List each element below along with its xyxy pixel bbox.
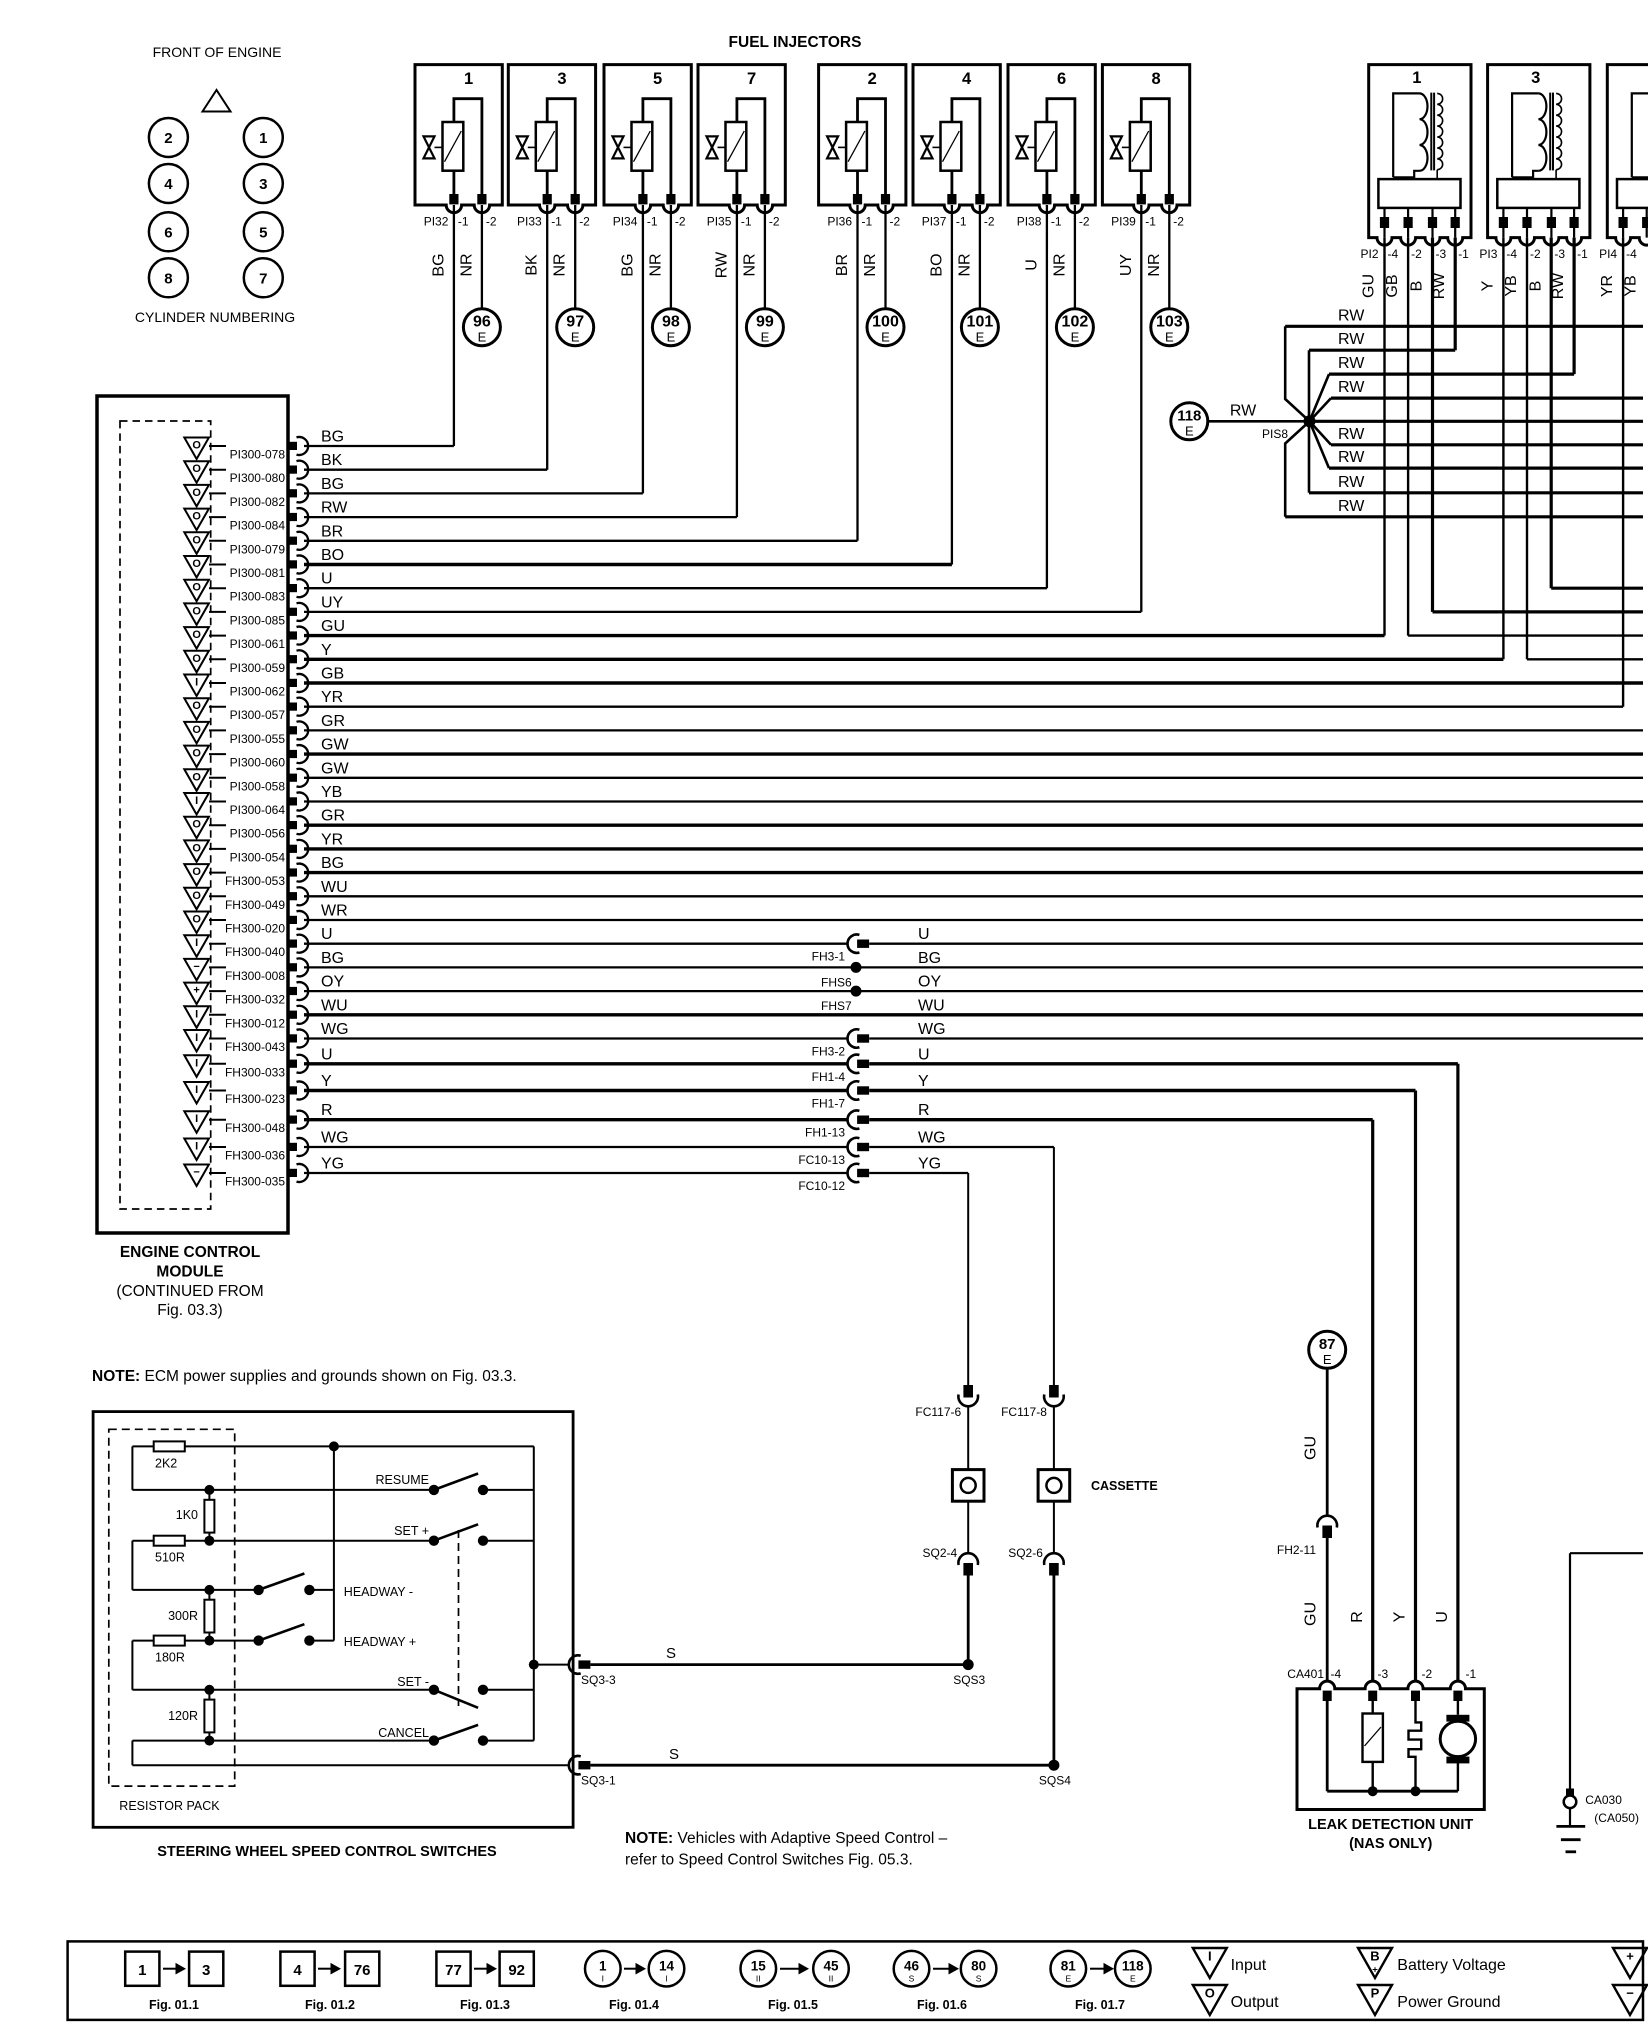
wire NR from PI36-2 to ground 100: [862, 205, 886, 309]
ECM pin FH300-036 (input WG): [184, 1138, 308, 1163]
fuel injector 2 (PI36): [819, 65, 906, 213]
svg-text:FC10-12: FC10-12: [798, 1179, 845, 1193]
svg-text:-4: -4: [1626, 247, 1637, 261]
ECM pin FH300-043 (input WG): [184, 1030, 308, 1055]
svg-text:BO: BO: [321, 547, 344, 564]
svg-text:RW: RW: [713, 251, 730, 278]
ground 97E: [557, 309, 594, 346]
svg-text:Fig. 01.4: Fig. 01.4: [609, 1998, 659, 2012]
wire BK from ECM PI300-080: [304, 452, 547, 470]
svg-text:BG: BG: [321, 429, 344, 446]
svg-text:GU: GU: [1303, 1602, 1320, 1626]
svg-text:BO: BO: [928, 253, 945, 276]
wire RW from ground 118 to splice PIS8: [1208, 403, 1310, 422]
svg-text:PI32: PI32: [424, 215, 449, 229]
ground 103E: [1151, 309, 1188, 346]
svg-text:STEERING WHEEL SPEED CONTROL S: STEERING WHEEL SPEED CONTROL SWITCHES: [157, 1844, 497, 1860]
svg-text:-1: -1: [1145, 215, 1156, 229]
resistor 1K0: [176, 1490, 215, 1541]
wire BG from ECM PI300-082: [304, 476, 643, 494]
svg-text:I: I: [195, 795, 198, 807]
svg-text:FH1-13: FH1-13: [805, 1126, 845, 1140]
wire to SQ3-3: [534, 1664, 570, 1666]
wire UY from PI39-1 to ECM: [1118, 205, 1142, 612]
wire left bus 2K2-1K0: [131, 1446, 133, 1490]
in-line connector SQ2-6: [1008, 1546, 1063, 1576]
ground 87E: [1309, 1331, 1346, 1368]
svg-text:-2: -2: [1422, 1667, 1433, 1681]
cylinder 4 circle: [149, 164, 188, 203]
ECM pin PI300-055 (output GR): [184, 721, 308, 746]
wire WU from ECM FH300-012 to right edge: [304, 997, 1643, 1015]
ECM pin PI300-083 (output U): [184, 579, 308, 604]
svg-text:PI300-078: PI300-078: [230, 448, 286, 462]
label LEAK DETECTION UNIT: [1308, 1817, 1473, 1852]
svg-text:45: 45: [823, 1959, 839, 1974]
svg-text:FH3-1: FH3-1: [812, 950, 846, 964]
svg-text:YR: YR: [321, 831, 343, 848]
svg-text:PIS8: PIS8: [1262, 427, 1288, 441]
svg-text:Y: Y: [1392, 1611, 1409, 1622]
wire BK from PI33-1 to ECM: [524, 205, 548, 470]
in-line connector FC10-13: [798, 1138, 869, 1167]
svg-text:118: 118: [1177, 408, 1201, 425]
svg-text:Output: Output: [1231, 1994, 1280, 2011]
svg-text:FH3-2: FH3-2: [812, 1045, 846, 1059]
svg-text:WU: WU: [321, 997, 348, 1014]
svg-text:Y: Y: [321, 642, 332, 659]
svg-text:FH300-035: FH300-035: [225, 1175, 285, 1189]
svg-text:E: E: [976, 330, 985, 345]
svg-text:FH300-012: FH300-012: [225, 1016, 285, 1030]
svg-text:-1: -1: [956, 215, 967, 229]
connector SQ3-3: [569, 1655, 616, 1687]
svg-text:15: 15: [751, 1959, 767, 1974]
svg-text:-2: -2: [984, 215, 995, 229]
svg-text:I: I: [195, 677, 198, 689]
switch HEADWAY+: [253, 1624, 333, 1646]
svg-text:I: I: [195, 1113, 198, 1125]
cylinder 1 circle: [244, 118, 283, 157]
wire WG from connector FH3-2: [869, 1021, 1643, 1039]
svg-text:(CONTINUED FROM: (CONTINUED FROM: [116, 1283, 263, 1300]
svg-text:O: O: [192, 534, 201, 546]
wire B rail from PI3-3 to right edge: [1551, 587, 1643, 590]
svg-text:UY: UY: [1118, 254, 1135, 277]
svg-text:101: 101: [967, 314, 994, 331]
wire CANCEL return to SQ3-1: [132, 1764, 570, 1766]
legend Fig. 01.7: [1051, 1951, 1151, 2012]
svg-text:SQ2-6: SQ2-6: [1008, 1546, 1043, 1560]
svg-text:Y: Y: [321, 1073, 332, 1090]
svg-text:87: 87: [1319, 1336, 1336, 1353]
wire left bus 120R-SQ3-1: [131, 1741, 133, 1766]
svg-text:YG: YG: [321, 1156, 344, 1173]
wire GW from ECM PI300-060 to right edge: [304, 737, 1643, 755]
svg-text:PI300-064: PI300-064: [230, 803, 286, 817]
label HEADWAY-: [344, 1585, 413, 1599]
svg-text:96: 96: [473, 314, 491, 331]
svg-text:O: O: [1205, 1986, 1215, 2001]
wire centre bus: [333, 1446, 335, 1640]
switch RESUME: [429, 1474, 534, 1496]
wire BG from PI34-1 to ECM: [619, 205, 643, 493]
legend Fig. 01.6: [894, 1951, 997, 2012]
svg-text:FRONT OF ENGINE: FRONT OF ENGINE: [153, 44, 282, 60]
svg-text:FH300-048: FH300-048: [225, 1121, 285, 1135]
svg-text:O: O: [192, 440, 201, 452]
wire B from PI2-3 down: [1431, 238, 1434, 612]
wire resistor-pack row with splice: [132, 1441, 533, 1451]
connector label PI34 -1 -2: [613, 215, 686, 229]
svg-text:O: O: [192, 842, 201, 854]
wire RW from PI2-1 to splice rail: [1454, 238, 1457, 351]
in-line connector FC10-12: [798, 1164, 869, 1193]
svg-text:3: 3: [259, 176, 267, 193]
svg-text:FC117-6: FC117-6: [915, 1405, 961, 1419]
svg-text:PI33: PI33: [517, 215, 542, 229]
ECM pin PI300-057 (output YR): [184, 698, 308, 723]
svg-text:E: E: [881, 330, 890, 345]
svg-text:FH1-7: FH1-7: [812, 1097, 846, 1111]
svg-text:FH300-043: FH300-043: [225, 1040, 285, 1054]
svg-text:120R: 120R: [168, 1709, 198, 1723]
wire RW rail 4: [1331, 379, 1643, 398]
svg-text:II: II: [829, 1974, 834, 1984]
svg-text:S: S: [909, 1974, 915, 1984]
svg-text:NOTE: Vehicles with Adaptive S: NOTE: Vehicles with Adaptive Speed Contr…: [625, 1830, 948, 1847]
wire U from connector FH1-4: [869, 1046, 1458, 1064]
svg-text:YR: YR: [321, 689, 343, 706]
fuel injector 4 (PI37): [913, 65, 1000, 213]
wire left bus 510R-300R: [131, 1541, 133, 1590]
svg-text:Fig. 01.5: Fig. 01.5: [768, 1998, 818, 2012]
wire GR from ECM PI300-055 to right edge: [304, 713, 1643, 731]
svg-text:PI2: PI2: [1360, 247, 1378, 261]
splice PIS8: [1285, 326, 1331, 517]
svg-text:E: E: [571, 330, 580, 345]
svg-text:RESISTOR PACK: RESISTOR PACK: [119, 1799, 220, 1813]
steering wheel switches box: [93, 1412, 573, 1828]
wire RW rail 3: [1329, 355, 1574, 374]
svg-text:I: I: [665, 1974, 667, 1984]
svg-text:Fig. 01.6: Fig. 01.6: [917, 1998, 967, 2012]
svg-text:Power Ground: Power Ground: [1397, 1994, 1500, 2011]
svg-text:GB: GB: [1384, 274, 1401, 297]
svg-text:-2: -2: [675, 215, 686, 229]
svg-text:BG: BG: [321, 855, 344, 872]
svg-text:PI300-080: PI300-080: [230, 471, 286, 485]
wire GB from PI2-2 down: [1407, 238, 1409, 636]
fuel injector 7 (PI35): [698, 65, 785, 213]
wire B rail from PI2-3 to right edge: [1433, 610, 1644, 613]
svg-text:O: O: [192, 724, 201, 736]
connector label PI33 -1 -2: [517, 215, 590, 229]
svg-text:80: 80: [971, 1959, 986, 1974]
resistor 2K2: [154, 1441, 185, 1470]
label HEADWAY+: [344, 1635, 416, 1649]
ignition coil 5 (PI4): [1607, 65, 1648, 246]
wire YG from connector FC10-12: [869, 1156, 968, 1174]
wire B from PI3-3 down: [1550, 238, 1553, 589]
wire YB from PI3-2 down: [1526, 238, 1528, 660]
svg-text:FC117-8: FC117-8: [1001, 1405, 1047, 1419]
svg-text:6: 6: [1057, 70, 1066, 88]
legend Fig. 01.2: [280, 1952, 379, 2012]
svg-text:-4: -4: [1506, 247, 1517, 261]
ECM pin PI300-080 (output BK): [184, 461, 308, 486]
wire GR from ECM PI300-056 to right edge: [304, 808, 1643, 826]
label CASSETTE: [1091, 1479, 1158, 1493]
svg-text:3: 3: [202, 1962, 210, 1979]
svg-text:PI4: PI4: [1599, 247, 1617, 261]
cassette switch contact at FC117-6: [952, 1470, 984, 1502]
svg-text:2: 2: [868, 70, 877, 88]
svg-text:YR: YR: [1599, 275, 1616, 297]
svg-text:103: 103: [1156, 314, 1183, 331]
svg-text:98: 98: [662, 314, 680, 331]
front-of-engine triangle symbol: [203, 90, 231, 112]
svg-text:R: R: [1349, 1611, 1366, 1623]
leak unit heater resistor: [1363, 1701, 1383, 1796]
svg-text:-1: -1: [1466, 1667, 1477, 1681]
leak detection unit box: [1297, 1681, 1484, 1809]
svg-text:BG: BG: [619, 253, 636, 276]
svg-text:GW: GW: [321, 737, 349, 754]
title FUEL INJECTORS: [729, 34, 862, 51]
svg-text:E: E: [1071, 330, 1080, 345]
ECM pin PI300-084 (output RW): [184, 508, 308, 532]
svg-text:RW: RW: [1338, 498, 1365, 515]
svg-text:CYLINDER NUMBERING: CYLINDER NUMBERING: [135, 309, 295, 325]
svg-text:SQ2-4: SQ2-4: [923, 1546, 958, 1560]
svg-text:NR: NR: [1051, 253, 1068, 276]
svg-text:-1: -1: [862, 215, 873, 229]
svg-text:I: I: [1208, 1949, 1212, 1964]
svg-text:14: 14: [659, 1959, 675, 1974]
wire SET- row: [132, 1685, 434, 1695]
wire cassette to SQ2-4: [967, 1501, 969, 1552]
cylinder 7 circle: [244, 258, 283, 297]
wire BG from ECM FH300-008 with splice FHS6: [304, 950, 1643, 990]
svg-text:RW: RW: [1338, 379, 1365, 396]
svg-text:81: 81: [1061, 1959, 1077, 1974]
svg-text:YB: YB: [321, 784, 342, 801]
svg-text:PI37: PI37: [922, 215, 947, 229]
svg-text:PI3: PI3: [1479, 247, 1497, 261]
svg-text:BK: BK: [321, 452, 343, 469]
svg-text:FH300-040: FH300-040: [225, 945, 285, 959]
wire RW rail 1: [1285, 307, 1643, 326]
wire GB from ECM PI300-062: [304, 666, 1643, 684]
coil 1 wire colour labels: [1361, 272, 1449, 299]
connector label PI3 pins: [1479, 247, 1588, 261]
ECM pin PI300-062 (input GB): [184, 674, 308, 699]
svg-text:O: O: [192, 890, 201, 902]
svg-text:(NAS ONLY): (NAS ONLY): [1349, 1836, 1432, 1852]
svg-text:1: 1: [138, 1962, 146, 1979]
svg-text:O: O: [192, 866, 201, 878]
svg-text:102: 102: [1062, 314, 1089, 331]
svg-text:FH300-008: FH300-008: [225, 969, 285, 983]
svg-text:8: 8: [164, 270, 172, 287]
svg-text:4: 4: [164, 176, 173, 193]
svg-text:O: O: [192, 653, 201, 665]
svg-text:FH300-032: FH300-032: [225, 993, 285, 1007]
wire BG from PI32-1 to ECM: [430, 205, 454, 446]
wire CANCEL row: [132, 1736, 434, 1746]
svg-text:2: 2: [164, 130, 172, 147]
ECM pin FH300-012 (input WU): [184, 1006, 308, 1031]
wire WR from ECM FH300-020 to right edge: [304, 903, 1643, 921]
wire FC117-6 to cassette: [967, 1407, 969, 1470]
svg-text:Fig. 01.7: Fig. 01.7: [1075, 1998, 1125, 2012]
svg-text:E: E: [1065, 1974, 1071, 1984]
wire RW rail from splice to right edge: [1310, 420, 1644, 423]
svg-text:O: O: [192, 463, 201, 475]
wire U from connector FH3-1: [869, 926, 1643, 944]
svg-text:CA401: CA401: [1287, 1667, 1324, 1681]
svg-text:O: O: [192, 914, 201, 926]
ground 100E: [867, 309, 904, 346]
svg-text:BG: BG: [321, 950, 344, 967]
cylinder 6 circle: [149, 212, 188, 251]
svg-text:BG: BG: [430, 253, 447, 276]
svg-text:Y: Y: [918, 1073, 929, 1090]
label RESISTOR PACK: [119, 1799, 220, 1813]
wire YB from ECM PI300-064 to right edge: [304, 784, 1643, 802]
in-line connector SQ2-4: [923, 1546, 978, 1576]
svg-text:SQS4: SQS4: [1039, 1774, 1071, 1788]
svg-text:4: 4: [293, 1962, 302, 1979]
svg-text:5: 5: [259, 224, 267, 241]
svg-text:O: O: [192, 771, 201, 783]
svg-text:SQ3-1: SQ3-1: [581, 1774, 616, 1788]
svg-text:NR: NR: [741, 253, 758, 276]
connector label PI32 -1 -2: [424, 215, 497, 229]
svg-text:SET -: SET -: [397, 1675, 429, 1689]
fuel injector 3 (PI33): [508, 65, 595, 213]
svg-text:PI300-056: PI300-056: [230, 827, 286, 841]
svg-text:B: B: [1409, 281, 1426, 292]
ground 98E: [652, 309, 689, 346]
wire NR from PI33-2 to ground 97: [552, 205, 576, 309]
svg-text:PI300-054: PI300-054: [230, 850, 286, 864]
ground 101E: [961, 309, 998, 346]
svg-text:OY: OY: [321, 974, 344, 991]
wire cassette to SQ2-6: [1053, 1501, 1055, 1552]
ECM pin PI300-078 (output BG): [184, 437, 308, 462]
in-line connector FH2-11: [1277, 1516, 1337, 1557]
label SET-: [397, 1675, 429, 1689]
svg-text:(CA050): (CA050): [1594, 1811, 1639, 1825]
wire UY from ECM PI300-085: [304, 594, 1141, 612]
legend power ground symbol: [1358, 1985, 1500, 2015]
wire U from ECM FH300-040 to connector FH3-1: [304, 926, 848, 944]
wire YB rail from PI3-2 to right edge: [1527, 658, 1643, 660]
svg-text:77: 77: [445, 1962, 462, 1979]
legend negative symbol: [1613, 1985, 1647, 2015]
switch SET+: [429, 1524, 534, 1546]
svg-text:2K2: 2K2: [155, 1456, 177, 1470]
svg-text:O: O: [192, 629, 201, 641]
svg-text:GU: GU: [321, 618, 345, 635]
engine control module box: [97, 396, 288, 1233]
svg-text:PI300-085: PI300-085: [230, 613, 286, 627]
wire U from ECM FH300-033 to connector FH1-4: [304, 1046, 848, 1064]
title STEERING WHEEL SPEED CONTROL SWITCHES: [157, 1844, 497, 1860]
wire RW from ECM PI300-084: [304, 500, 737, 518]
connector label PI39 -1 -2: [1111, 215, 1184, 229]
svg-text:5: 5: [653, 70, 662, 88]
svg-text:WG: WG: [321, 1021, 349, 1038]
ignition coil 1 (PI2): [1369, 65, 1471, 246]
svg-text:S: S: [976, 1974, 982, 1984]
ECM pin PI300-081 (output BO): [184, 556, 308, 581]
wire YR from ECM PI300-057: [304, 689, 1623, 707]
ground 96E: [463, 309, 500, 346]
wire RW rail 7: [1309, 474, 1643, 493]
note adaptive speed control: [625, 1830, 948, 1869]
note ECM power supplies: [92, 1368, 517, 1385]
ECM pin PI300-054 (output YR): [184, 840, 308, 865]
ECM pin FH300-032 (power OY): [184, 982, 308, 1007]
fuel injector 8 (PI39): [1102, 65, 1189, 213]
ECM pin PI300-058 (output GW): [184, 769, 308, 793]
svg-text:NR: NR: [647, 253, 664, 276]
wire BR from PI36-1 to ECM: [834, 205, 858, 541]
svg-text:Fig. 01.1: Fig. 01.1: [149, 1998, 199, 2012]
svg-text:YB: YB: [1503, 275, 1520, 296]
svg-text:PI300-079: PI300-079: [230, 542, 286, 556]
ground 118E: [1171, 403, 1208, 440]
wire FC117-8 to cassette: [1053, 1407, 1055, 1470]
ECM pin FH300-040 (input U): [184, 935, 308, 960]
resistor 180R: [154, 1636, 185, 1665]
resistor 300R: [168, 1590, 214, 1641]
wire GU from ECM PI300-061: [304, 618, 1385, 636]
wire R from connector FH1-13: [869, 1102, 1372, 1120]
wire R from FH1-13 to leak detection CA401-3: [1349, 1120, 1373, 1682]
wire Y from ECM FH300-023 to connector FH1-7: [304, 1073, 848, 1091]
svg-text:SQ3-3: SQ3-3: [581, 1673, 616, 1687]
wire BO from PI37-1 to ECM: [928, 205, 952, 565]
svg-text:RW: RW: [1338, 331, 1365, 348]
wire BO from ECM PI300-081: [304, 547, 952, 565]
ECM pin PI300-056 (output GR): [184, 816, 308, 841]
wire WG down to FC117-8: [1053, 1147, 1055, 1385]
resistor 120R: [168, 1690, 214, 1741]
wire YR from ECM PI300-054 to right edge: [304, 831, 1643, 849]
svg-text:-4: -4: [1331, 1667, 1342, 1681]
svg-text:-1: -1: [647, 215, 658, 229]
svg-text:O: O: [192, 605, 201, 617]
svg-text:R: R: [321, 1102, 333, 1119]
svg-text:PI300-082: PI300-082: [230, 495, 286, 509]
wire U from PI38-1 to ECM: [1023, 205, 1047, 588]
wire RW rail 5: [1331, 426, 1643, 445]
svg-text:-2: -2: [890, 215, 901, 229]
leak unit pump motor: [1440, 1701, 1475, 1791]
svg-text:RESUME: RESUME: [376, 1473, 429, 1487]
fuel injector 6 (PI38): [1008, 65, 1095, 213]
svg-text:I: I: [195, 1141, 198, 1153]
svg-text:Input: Input: [1231, 1957, 1267, 1974]
svg-text:-1: -1: [1458, 247, 1469, 261]
legend input symbol: [1193, 1948, 1267, 1978]
svg-text:6: 6: [164, 224, 172, 241]
svg-text:-2: -2: [579, 215, 590, 229]
